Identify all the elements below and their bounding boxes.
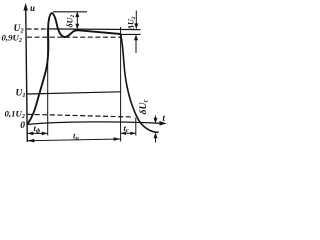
U2 level solid reference line xyxy=(47,28,141,31)
t-phi dimension line with arrows xyxy=(27,132,47,134)
delta-U2 lower reference line xyxy=(121,33,141,35)
u axis arrowhead xyxy=(23,3,28,11)
0.1U2 dashed line xyxy=(27,114,134,117)
waveform: rising edge, overshoot, dip, flat top xyxy=(27,13,120,125)
t-phi extension bar xyxy=(47,30,49,136)
U2 level dashed segment xyxy=(27,28,47,30)
t_i dimension line with arrows xyxy=(27,139,120,141)
waveform: falling edge with undershoot tail xyxy=(121,34,159,132)
u axis xyxy=(26,8,28,142)
delta-Uc undershoot arrows xyxy=(155,116,157,122)
0.9U2 dashed line xyxy=(27,36,121,38)
peak level reference line xyxy=(53,11,87,13)
Delta-U2 droop down-arrow xyxy=(135,11,137,28)
svg-text:0: 0 xyxy=(20,121,25,131)
bar at end of flat top (t_i / t_c boundary) xyxy=(120,27,122,142)
t axis arrowhead xyxy=(160,121,167,126)
t_c dimension line with arrows xyxy=(121,132,136,134)
svg-text:0,9U2: 0,9U2 xyxy=(2,33,22,45)
t axis xyxy=(27,122,162,125)
svg-text:u: u xyxy=(30,3,35,13)
Delta-U2 droop up-arrow xyxy=(135,36,137,53)
U1 level line xyxy=(27,92,121,94)
delta-U2 overshoot arrow (double-headed) xyxy=(76,13,78,28)
svg-text:0,1U2: 0,1U2 xyxy=(5,109,25,121)
bar at end of t_c xyxy=(135,118,137,136)
